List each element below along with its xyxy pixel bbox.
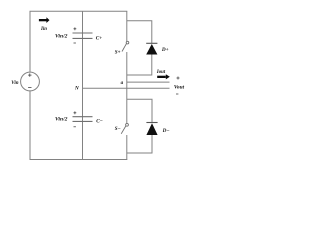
wire right leg middle (S+ to S-) xyxy=(126,52,128,123)
label C+ polarity plus xyxy=(74,27,77,30)
svg-text:D−: D− xyxy=(162,128,170,134)
svg-text:a: a xyxy=(121,81,124,86)
wire D- branch staple xyxy=(127,99,152,122)
svg-text:S+: S+ xyxy=(115,51,121,56)
source Vin xyxy=(21,72,40,91)
wire D+ branch lower xyxy=(127,55,152,76)
diode D- xyxy=(146,123,157,136)
switch S- xyxy=(121,123,128,133)
svg-text:Vin/2: Vin/2 xyxy=(55,117,68,123)
svg-text:C−: C− xyxy=(96,118,103,124)
wire capacitor leg xyxy=(82,11,84,159)
svg-text:Vin/2: Vin/2 xyxy=(55,34,68,40)
svg-text:N: N xyxy=(74,86,79,92)
wire left edge upper xyxy=(29,11,31,72)
wire top rail xyxy=(30,10,128,12)
label output minus xyxy=(176,93,178,95)
wire D- branch lower xyxy=(127,135,152,153)
svg-text:Vout: Vout xyxy=(174,85,185,91)
label C- polarity plus xyxy=(74,111,77,114)
wire right leg upper (above S+) xyxy=(126,11,128,41)
switch S+ xyxy=(122,41,129,51)
wire D+ branch staple xyxy=(127,21,152,44)
arrow Iin xyxy=(39,17,50,23)
wire node a output line xyxy=(127,81,170,83)
wire left edge lower xyxy=(29,91,31,160)
label C- polarity minus xyxy=(74,126,76,128)
svg-text:S−: S− xyxy=(115,127,121,132)
label output plus xyxy=(177,77,180,80)
arrow Iout xyxy=(157,74,170,79)
svg-text:Vin: Vin xyxy=(11,81,18,86)
wire bottom rail xyxy=(30,159,128,161)
label C+ polarity minus xyxy=(74,42,76,44)
label Vin source plus xyxy=(28,74,31,76)
wire node N output line xyxy=(83,87,170,89)
capacitor C+ xyxy=(73,33,93,38)
svg-text:C+: C+ xyxy=(96,36,102,42)
capacitor C- xyxy=(73,117,93,122)
label Vin source minus xyxy=(28,86,31,88)
wire right leg lower (below S-) xyxy=(126,135,128,160)
svg-text:D+: D+ xyxy=(161,47,169,53)
svg-text:Iout: Iout xyxy=(156,70,166,75)
diode D+ xyxy=(146,43,157,54)
svg-text:Iin: Iin xyxy=(40,27,47,32)
